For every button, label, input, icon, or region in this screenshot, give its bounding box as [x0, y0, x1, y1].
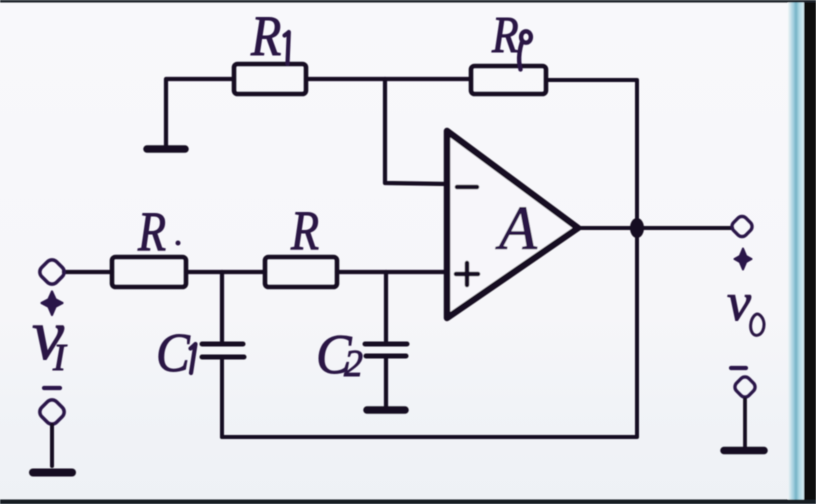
- svg-text:C: C: [156, 323, 190, 383]
- svg-text:R: R: [137, 201, 166, 263]
- svg-text:R: R: [491, 7, 519, 64]
- svg-text:ν: ν: [727, 272, 751, 332]
- svg-text:A: A: [495, 195, 538, 263]
- svg-text:2: 2: [344, 343, 363, 385]
- svg-text:I: I: [52, 337, 68, 379]
- svg-text:R: R: [250, 4, 281, 68]
- svg-text:R: R: [290, 200, 319, 262]
